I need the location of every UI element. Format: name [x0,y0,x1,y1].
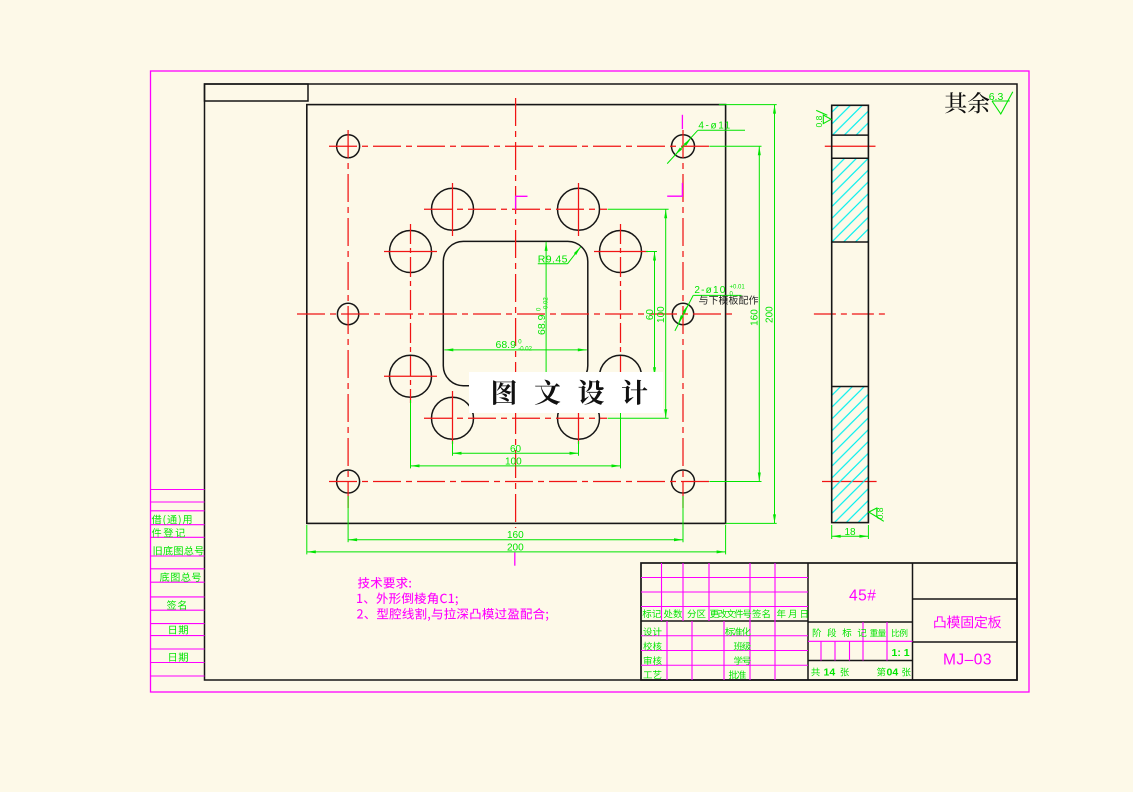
svg-text:1: 1: 1: 1 [892,647,910,659]
side view section line 4 [832,386,869,388]
watermark text 文 [535,380,560,405]
part name 凸模固定板 [934,615,1001,628]
sheet outer border (magenta) [151,71,1030,692]
svg-text:0.8: 0.8 [875,507,885,519]
dim 160 vertical extension bottom [709,481,761,483]
left column label 旧底图总号 [154,546,204,556]
centerline row screw holes bottom pair [424,417,607,419]
label 比例 [892,629,908,637]
dim 68.9 horizontal line [444,349,587,351]
svg-text:+0.01: +0.01 [730,285,746,291]
label 班级 [734,642,751,651]
side view dim 18 line [832,535,869,537]
title block black dividers [641,563,1017,680]
leader R9.45 diagonal [568,247,581,264]
label 共 [811,668,820,677]
title block outer frame [641,563,1017,680]
magenta mark at right column lower [667,183,682,196]
centerline horizontal main [297,313,734,315]
dim 160 horizontal line [348,539,683,541]
svg-text:-0.02: -0.02 [543,297,549,311]
left column label 签名 [167,600,186,609]
dimension arrowheads [453,452,462,455]
side view centerline bottom hole [822,481,877,483]
label 张 (second) [902,668,910,677]
side view centerline top hole [825,145,876,147]
label row 标记 处数 分区 更改文件号 签名 年 月 日 [643,609,661,618]
svg-text:200: 200 [507,543,524,554]
centerline column screw left x452 top [452,183,454,236]
dim 200 vertical extension bottom [726,522,777,524]
corner hole 4-ø11 bottom-right [672,470,695,493]
technical requirements line 1 [358,577,411,589]
side view section line 3 [832,241,869,243]
centerline column diag x620 [620,224,622,403]
plate outline (front view) [307,105,726,524]
screw hole upper-left [390,231,432,273]
dim 200 horizontal extension left [306,525,308,554]
dim 100 horizontal extension left [410,400,412,468]
centerline column screw left x452 bottom [452,391,454,444]
svg-text:68.9: 68.9 [536,314,548,335]
label 校核 [643,642,661,651]
label 设计 [643,627,661,636]
svg-text:14: 14 [824,666,836,678]
side view section line 1 [832,134,869,136]
left column label 日期 (lower) [169,653,188,662]
corner hole 4-ø11 top-right [672,135,695,158]
centerline row screw holes top pair [424,208,607,210]
watermark background box [469,372,663,413]
side view hatched section upper [832,158,869,242]
centerline column left holes [347,130,349,508]
label 审核 [644,656,662,665]
label 学号 [734,656,751,665]
svg-text:60: 60 [510,444,522,455]
centerline row upper diag right [594,251,648,253]
svg-text:200: 200 [764,306,775,323]
magenta mark below 200 dim [514,553,516,566]
svg-text:160: 160 [507,530,524,541]
screw hole upper-right [600,231,642,273]
dim 60 vertical extension top [646,251,657,253]
side view hatched section top [832,105,869,135]
corner hole 4-ø11 top-left [337,135,360,158]
magenta mark at center column [516,196,528,210]
centerline column screw right x578 bottom [578,391,580,444]
screw hole top-right [558,188,600,230]
centerline column screw right x578 top [578,183,580,236]
left column label 借(通)用 [152,515,192,526]
dim 160 horizontal extension left [347,496,349,542]
title block magenta grid: revision table [641,563,913,680]
left margin column boxes [151,490,205,677]
side view hatched section lower [832,387,869,523]
center square cutout R9.45 [443,241,588,385]
label 年 月 日 [777,609,807,618]
label 更改文件号 [710,609,751,618]
dim 100 vertical line [665,209,667,418]
screw hole top-left [432,188,474,230]
svg-text:18: 18 [844,527,856,538]
watermark text 计 [622,380,648,405]
left column label 件登记 [152,528,185,537]
screw hole lower-right [600,355,642,397]
svg-text:-0.02: -0.02 [518,347,532,353]
dim 100 vertical extension top [608,208,669,210]
ø11 leader arrows on circle [684,138,691,146]
svg-text:100: 100 [505,457,522,468]
dim 60 vertical line [654,252,656,377]
dim 100 vertical extension bottom [608,417,669,419]
side view outline [832,105,869,522]
corner hole 4-ø11 bottom-left [337,470,360,493]
dim 60 horizontal extension right [578,441,580,456]
svg-text:160: 160 [749,309,760,326]
dim 160 vertical line [758,146,760,481]
label 阶段标记 [813,628,867,637]
note 其余 (rest) [945,92,990,113]
screw hole bottom-left [432,397,474,439]
frame zone box top-left [205,84,309,101]
side view dim 18 extension left [831,525,833,539]
screw hole lower-left [390,355,432,397]
dowel hole 2-ø10 right [672,303,693,324]
label 处数 [664,609,682,618]
title block magenta grid: signature rows [641,635,808,637]
svg-text:60: 60 [645,309,656,321]
left column label 底图总号 [160,572,201,582]
centerline row upper diag left [384,251,437,253]
dim 160 vertical extension top [709,145,761,147]
ø10 leader arrows on circle [682,305,688,314]
svg-text:R9.45: R9.45 [538,253,568,265]
svg-text:68.9: 68.9 [496,339,517,351]
label 签名 [752,609,769,618]
centerline row lower diag right [594,375,648,377]
dim 200 horizontal extension right [725,525,727,554]
dim 200 horizontal line [307,551,726,553]
title block magenta grid: middle section [808,640,913,642]
dim 60 horizontal line [453,452,579,454]
technical requirements line 3 [357,608,548,621]
leader 4-ø11 underline [698,129,745,131]
surface finish symbol 0.8 bottom-right [869,508,884,521]
svg-text:100: 100 [656,306,667,323]
dim 100 horizontal extension right [620,400,622,468]
svg-text:4-ø11: 4-ø11 [698,121,731,132]
left column label 日期 (upper) [169,625,188,634]
label 张 (first) [841,668,849,677]
dim 60 horizontal extension left [452,441,454,456]
leader 4-ø11 diagonal [667,130,698,163]
leader R9.45 underline [538,263,568,265]
svg-text:2-ø10: 2-ø10 [694,285,726,296]
label 批准 [729,670,746,679]
centerline row corner holes bottom [329,481,709,483]
centerline column right holes [682,130,684,508]
svg-text:45#: 45# [849,588,876,605]
leader 2-ø10 underline [693,294,741,296]
label 工艺 [644,670,662,679]
centerline column vertical main [515,98,517,528]
red centerlines [297,98,885,528]
label 重量 [870,629,886,637]
technical requirements line 2 [357,592,458,605]
surface finish symbol 0.8 top-left [816,110,831,123]
dim 60 vertical extension bottom [646,375,657,377]
side view section line 2 [832,157,869,159]
label 分区 [687,610,705,619]
leader text 与下模板配作 [699,295,758,304]
inner drawing frame [205,84,1018,680]
dowel hole 2-ø10 left [337,303,358,324]
svg-text:0.8: 0.8 [814,115,824,127]
label 第 [877,668,886,677]
dim 68.9 vertical line [545,242,547,385]
side view centerline middle [814,313,885,315]
screw hole bottom-right [558,397,600,439]
svg-text:04: 04 [887,666,899,678]
centerline row lower diag left [384,375,437,377]
magenta mark at right column upper [681,115,683,129]
centerline row corner holes top [329,145,709,147]
watermark text 设 [579,380,605,405]
dim 200 vertical extension top [719,104,777,106]
svg-text:MJ–03: MJ–03 [943,652,992,669]
dim 160 horizontal extension right [682,496,684,542]
watermark text 图 [493,380,516,405]
leader 2-ø10 diagonal [675,295,693,331]
dim 100 horizontal line [411,465,621,467]
label 标准化 [725,627,751,636]
dim 200 vertical line [774,105,776,524]
centerline column diag x410 [410,224,412,403]
side view dim 18 extension right [867,525,869,539]
